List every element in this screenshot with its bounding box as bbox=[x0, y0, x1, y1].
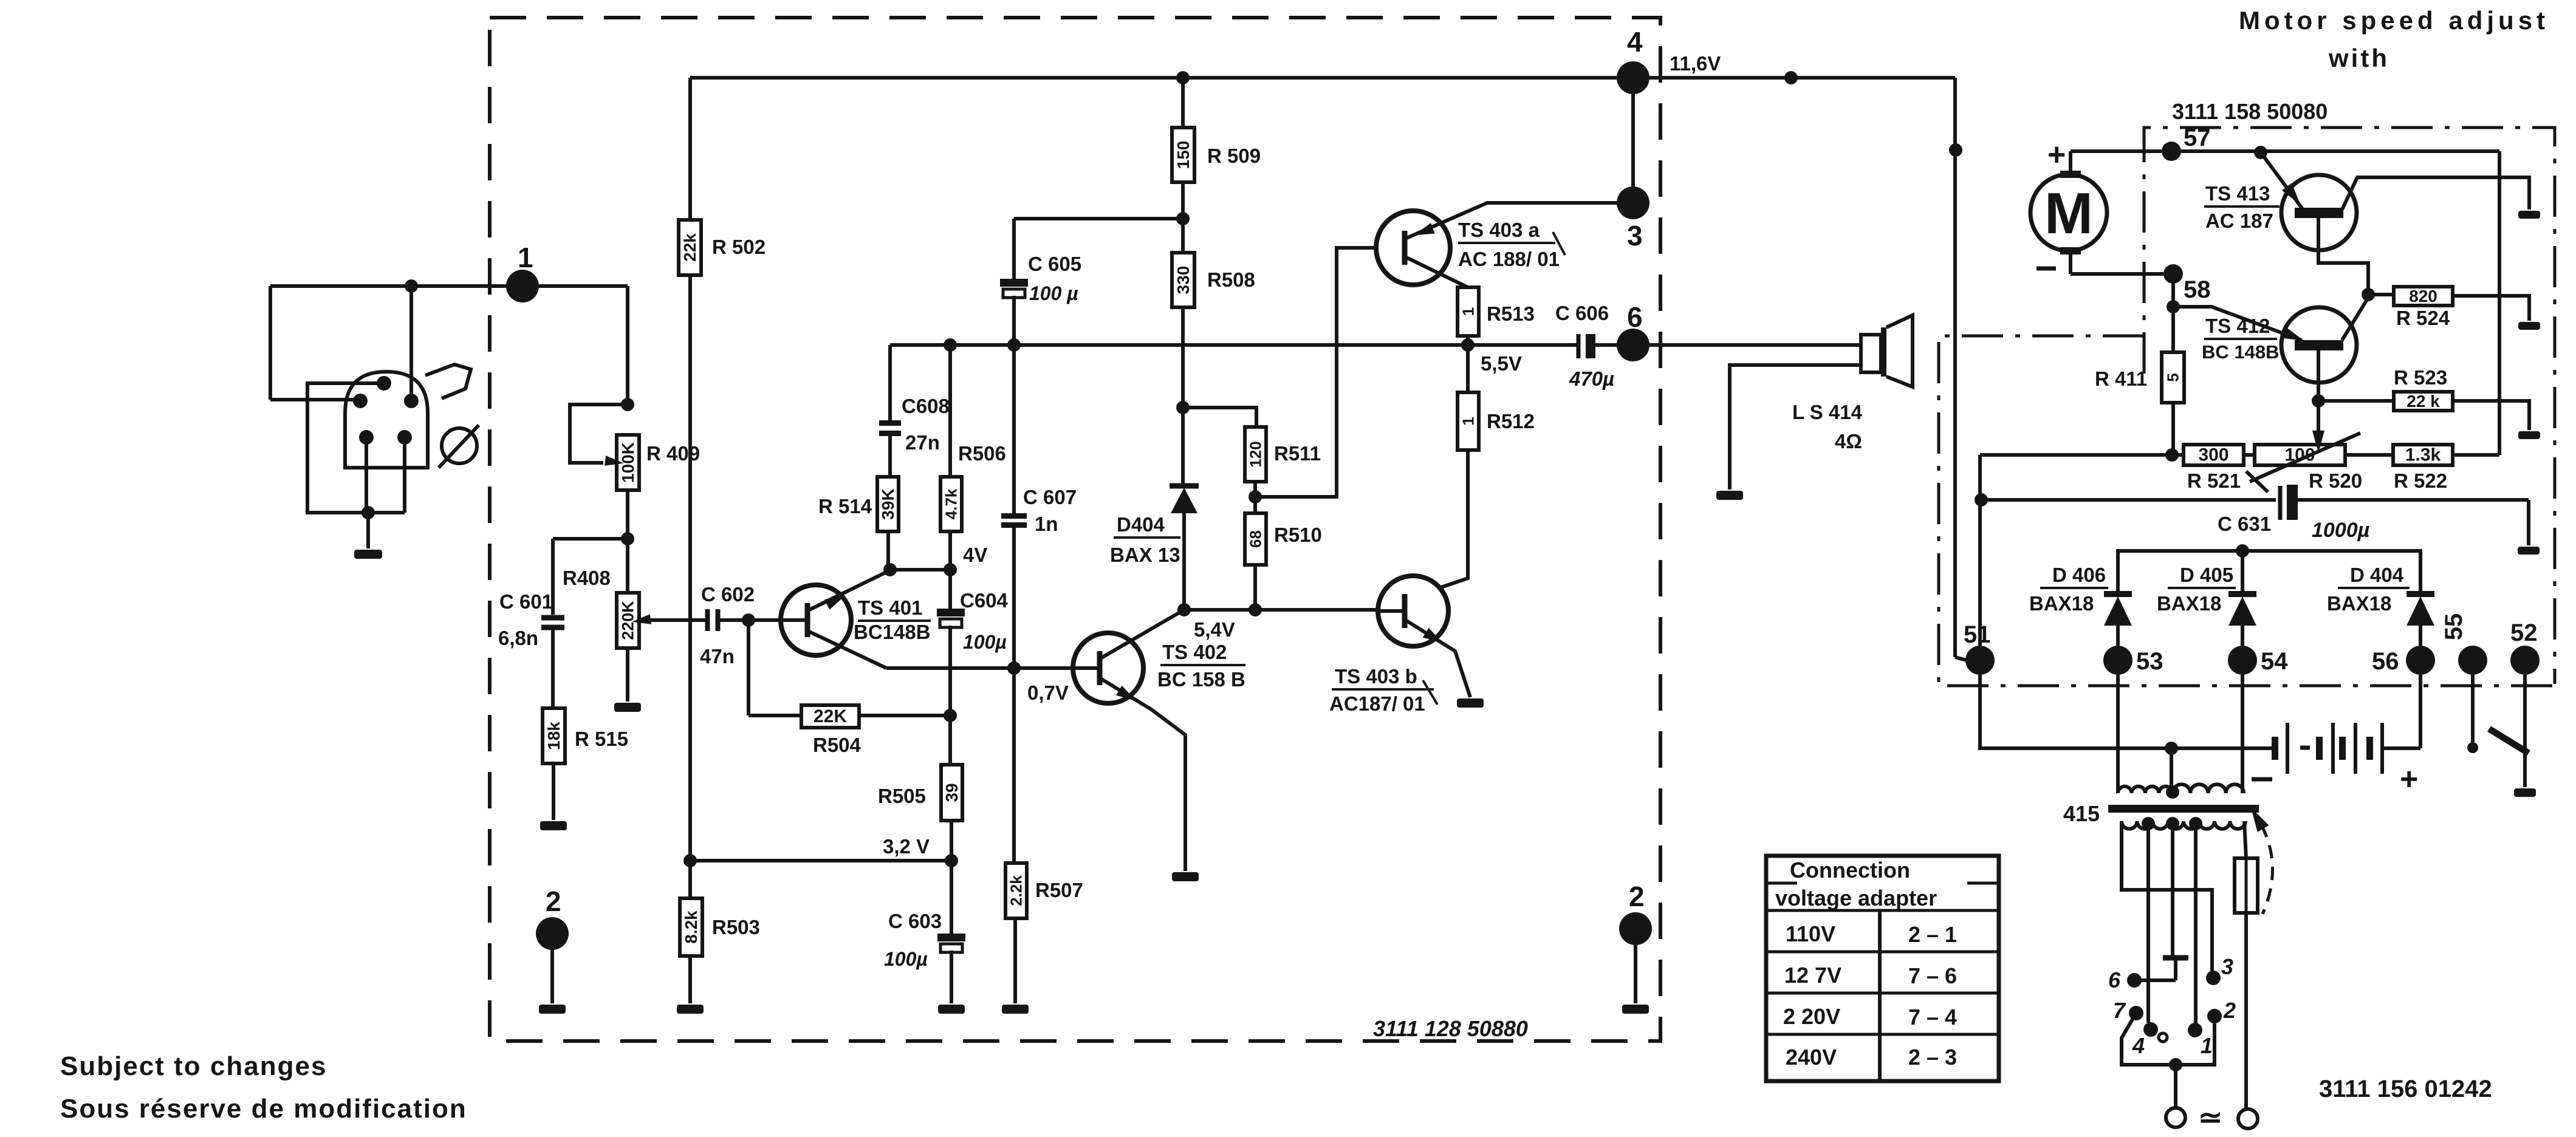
svg-text:Sous réserve de modification: Sous réserve de modification bbox=[60, 1094, 467, 1124]
svg-text:TS 402: TS 402 bbox=[1162, 641, 1227, 663]
svg-text:AC 188/ 01: AC 188/ 01 bbox=[1458, 248, 1560, 270]
svg-text:240V: 240V bbox=[1786, 1045, 1837, 1070]
svg-text:R 514: R 514 bbox=[818, 495, 872, 517]
svg-text:with: with bbox=[2328, 44, 2389, 72]
svg-text:5,4V: 5,4V bbox=[1194, 618, 1235, 641]
svg-text:120: 120 bbox=[1247, 441, 1265, 467]
svg-text:6,8n: 6,8n bbox=[498, 627, 538, 649]
svg-text:3: 3 bbox=[1627, 220, 1643, 251]
svg-text:L S 414: L S 414 bbox=[1792, 401, 1863, 423]
svg-text:56: 56 bbox=[2372, 648, 2399, 675]
svg-text:TS 401: TS 401 bbox=[858, 596, 922, 619]
svg-text:2 20V: 2 20V bbox=[1783, 1004, 1840, 1029]
svg-text:TS 412: TS 412 bbox=[2205, 315, 2270, 337]
svg-text:R408: R408 bbox=[563, 567, 611, 589]
svg-text:3: 3 bbox=[2221, 954, 2233, 979]
svg-text:110V: 110V bbox=[1786, 921, 1835, 946]
svg-text:58: 58 bbox=[2184, 276, 2211, 303]
svg-text:415: 415 bbox=[2063, 801, 2100, 826]
svg-text:100K: 100K bbox=[618, 442, 637, 483]
svg-text:M: M bbox=[2044, 181, 2093, 246]
svg-text:voltage adapter: voltage adapter bbox=[1775, 886, 1937, 910]
svg-text:55: 55 bbox=[2441, 613, 2467, 641]
svg-text:27n: 27n bbox=[905, 431, 940, 454]
svg-text:2: 2 bbox=[1629, 881, 1645, 912]
svg-text:3111 158 50080: 3111 158 50080 bbox=[2172, 99, 2328, 124]
svg-text:5,5V: 5,5V bbox=[1481, 352, 1522, 375]
svg-text:R 509: R 509 bbox=[1207, 145, 1261, 167]
svg-text:R 411: R 411 bbox=[2095, 367, 2147, 390]
svg-text:100 µ: 100 µ bbox=[1029, 282, 1078, 304]
svg-text:≃: ≃ bbox=[2198, 1102, 2222, 1134]
svg-text:4V: 4V bbox=[963, 544, 987, 566]
svg-text:C 601: C 601 bbox=[499, 590, 553, 613]
svg-text:4Ω: 4Ω bbox=[1835, 430, 1862, 452]
svg-text:54: 54 bbox=[2261, 648, 2288, 675]
svg-text:R 515: R 515 bbox=[575, 728, 628, 750]
svg-text:330: 330 bbox=[1174, 266, 1193, 295]
svg-text:2: 2 bbox=[546, 886, 561, 917]
svg-text:TS 403 a: TS 403 a bbox=[1458, 219, 1540, 241]
svg-text:R 522: R 522 bbox=[2394, 469, 2447, 492]
svg-text:2: 2 bbox=[2223, 998, 2236, 1023]
svg-text:R505: R505 bbox=[878, 785, 926, 807]
svg-text:53: 53 bbox=[2136, 648, 2163, 675]
svg-text:3111 156 01242: 3111 156 01242 bbox=[2319, 1076, 2492, 1102]
svg-text:BC 148B: BC 148B bbox=[2202, 341, 2280, 363]
svg-text:Subject to changes: Subject to changes bbox=[60, 1051, 327, 1081]
svg-text:11,6V: 11,6V bbox=[1670, 52, 1721, 75]
svg-text:R506: R506 bbox=[958, 442, 1006, 465]
svg-text:AC 187: AC 187 bbox=[2205, 210, 2273, 232]
svg-text:7 – 4: 7 – 4 bbox=[1908, 1005, 1957, 1029]
svg-text:39: 39 bbox=[942, 783, 961, 802]
svg-text:R513: R513 bbox=[1487, 302, 1535, 325]
svg-text:D 404: D 404 bbox=[2350, 564, 2404, 586]
svg-text:22 k: 22 k bbox=[2406, 392, 2440, 411]
svg-text:4: 4 bbox=[2132, 1033, 2145, 1058]
svg-text:47n: 47n bbox=[700, 645, 735, 668]
svg-text:7 – 6: 7 – 6 bbox=[1908, 963, 1957, 988]
svg-text:6: 6 bbox=[1627, 301, 1643, 333]
svg-text:C 606: C 606 bbox=[1555, 302, 1609, 324]
svg-text:12 7V: 12 7V bbox=[1784, 963, 1841, 988]
svg-text:C 602: C 602 bbox=[701, 583, 755, 606]
svg-text:2 – 1: 2 – 1 bbox=[1908, 922, 1957, 947]
svg-text:R510: R510 bbox=[1274, 524, 1322, 546]
svg-text:100µ: 100µ bbox=[884, 948, 928, 970]
svg-text:C 631: C 631 bbox=[2218, 513, 2271, 535]
svg-text:BC148B: BC148B bbox=[854, 621, 931, 643]
svg-text:1n: 1n bbox=[1035, 513, 1058, 535]
svg-text:R511: R511 bbox=[1274, 442, 1321, 465]
svg-text:C 607: C 607 bbox=[1023, 486, 1077, 508]
svg-text:R 524: R 524 bbox=[2396, 307, 2450, 329]
svg-text:4: 4 bbox=[1627, 26, 1643, 58]
svg-text:2 – 3: 2 – 3 bbox=[1908, 1045, 1957, 1070]
svg-text:4.7k: 4.7k bbox=[942, 488, 961, 519]
svg-text:D 405: D 405 bbox=[2180, 564, 2233, 586]
svg-text:AC187/ 01: AC187/ 01 bbox=[1329, 692, 1425, 715]
svg-text:Connection: Connection bbox=[1790, 858, 1910, 883]
svg-text:C 603: C 603 bbox=[888, 910, 942, 932]
svg-text:18k: 18k bbox=[544, 722, 563, 750]
svg-text:D 406: D 406 bbox=[2052, 564, 2106, 586]
svg-text:R508: R508 bbox=[1207, 268, 1255, 291]
svg-text:3,2 V: 3,2 V bbox=[883, 835, 930, 858]
svg-text:820: 820 bbox=[2409, 287, 2437, 306]
svg-text:R 520: R 520 bbox=[2309, 469, 2362, 492]
svg-text:1.3k: 1.3k bbox=[2405, 445, 2441, 465]
svg-text:TS 413: TS 413 bbox=[2205, 182, 2270, 205]
svg-text:1: 1 bbox=[518, 242, 533, 273]
svg-text:39K: 39K bbox=[879, 488, 897, 519]
svg-text:7: 7 bbox=[2113, 998, 2126, 1023]
svg-text:8.2k: 8.2k bbox=[682, 910, 701, 944]
svg-text:BAX 13: BAX 13 bbox=[1110, 544, 1180, 566]
svg-text:0,7V: 0,7V bbox=[1027, 681, 1069, 704]
svg-text:5: 5 bbox=[2164, 373, 2182, 381]
svg-text:3111 128 50880: 3111 128 50880 bbox=[1373, 1016, 1528, 1041]
svg-text:100µ: 100µ bbox=[963, 631, 1007, 653]
svg-text:R504: R504 bbox=[813, 734, 862, 756]
svg-text:R 523: R 523 bbox=[2394, 366, 2447, 389]
svg-text:68: 68 bbox=[1247, 530, 1265, 548]
svg-text:22k: 22k bbox=[680, 233, 699, 262]
svg-text:150: 150 bbox=[1174, 141, 1193, 169]
svg-text:C604: C604 bbox=[960, 589, 1009, 612]
svg-text:D404: D404 bbox=[1117, 513, 1165, 536]
svg-text:1: 1 bbox=[1459, 307, 1478, 316]
svg-text:BAX18: BAX18 bbox=[2029, 592, 2094, 615]
svg-text:+: + bbox=[2400, 762, 2418, 797]
svg-text:R512: R512 bbox=[1487, 410, 1535, 432]
svg-text:BAX18: BAX18 bbox=[2327, 592, 2391, 615]
svg-text:Motor speed adjust: Motor speed adjust bbox=[2239, 6, 2549, 35]
svg-text:R 521: R 521 bbox=[2187, 469, 2241, 492]
svg-text:1000µ: 1000µ bbox=[2312, 519, 2369, 542]
svg-text:52: 52 bbox=[2510, 620, 2538, 646]
svg-text:R503: R503 bbox=[712, 916, 760, 938]
svg-text:470µ: 470µ bbox=[1569, 367, 1614, 390]
svg-text:TS 403 b: TS 403 b bbox=[1335, 665, 1417, 688]
svg-text:BAX18: BAX18 bbox=[2157, 592, 2221, 615]
svg-text:6: 6 bbox=[2108, 968, 2121, 992]
svg-text:1: 1 bbox=[2201, 1033, 2213, 1058]
svg-text:51: 51 bbox=[1964, 621, 1991, 648]
svg-text:C608: C608 bbox=[902, 395, 950, 417]
svg-text:C 605: C 605 bbox=[1028, 253, 1081, 275]
svg-text:57: 57 bbox=[2184, 125, 2211, 151]
svg-text:R 502: R 502 bbox=[712, 236, 766, 258]
svg-text:300: 300 bbox=[2198, 445, 2228, 465]
svg-text:+: + bbox=[2047, 137, 2066, 172]
svg-text:1: 1 bbox=[1459, 417, 1478, 425]
svg-text:2.2k: 2.2k bbox=[1007, 875, 1026, 906]
svg-text:220K: 220K bbox=[619, 601, 637, 640]
svg-text:R507: R507 bbox=[1035, 879, 1083, 901]
svg-text:BC 158 B: BC 158 B bbox=[1157, 668, 1245, 691]
svg-text:22K: 22K bbox=[814, 706, 847, 726]
